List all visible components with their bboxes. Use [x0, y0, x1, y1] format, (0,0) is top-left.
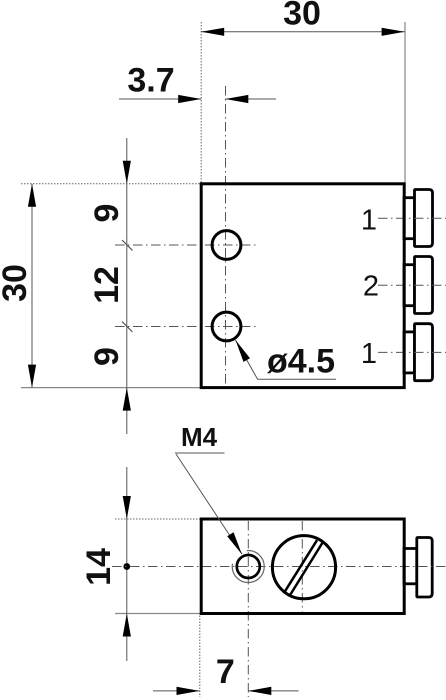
dimension line 3.7 left tail	[119, 98, 201, 100]
arrow 9/12/9 bottom (pointing up)	[123, 388, 131, 411]
leader arrow o4.5 (pointing up-left at hole)	[236, 340, 251, 362]
arrow 7 left (pointing right)	[177, 687, 200, 695]
hole lower	[212, 312, 241, 341]
svg-text:12: 12	[88, 266, 126, 304]
tick at hole1 level	[122, 240, 133, 251]
svg-text:2: 2	[363, 271, 379, 303]
M4 hole inner circle	[237, 555, 260, 578]
extension line 7 left (body edge extended)	[199, 616, 201, 698]
svg-text:M4: M4	[181, 422, 218, 452]
body fill (top view)	[201, 184, 404, 388]
leader line M4	[176, 454, 242, 554]
svg-text:7: 7	[216, 653, 235, 691]
svg-text:1: 1	[361, 338, 377, 370]
center line hole2 horizontal	[115, 326, 256, 328]
dot on 14 dim line	[123, 563, 130, 570]
dimension line 14 vertical	[126, 467, 128, 661]
pin2 tab	[404, 265, 415, 306]
leader arrow M4 (pointing down-right)	[227, 532, 242, 554]
pin3 cap	[415, 324, 433, 381]
arrow 9/12/9 top (pointing down)	[123, 161, 131, 184]
arrow 14 bottom (pointing up)	[123, 614, 131, 637]
pin1 cap	[415, 190, 433, 247]
dimension line 30 (top)	[201, 31, 404, 33]
arrow 7 right (pointing left)	[248, 687, 271, 695]
screw slot line 1	[284, 540, 317, 593]
body outline (bottom view)	[201, 519, 404, 614]
pin2 center line	[378, 284, 446, 286]
M4 thread outer arc	[232, 551, 264, 583]
center line hole1 horizontal	[115, 244, 256, 246]
extension line body2 bottom	[115, 613, 200, 615]
arrow 30-top left	[201, 28, 224, 36]
svg-text:30: 30	[283, 0, 321, 33]
svg-text:ø4.5: ø4.5	[267, 343, 335, 381]
body fill (bottom view)	[201, 519, 404, 614]
screw head circle	[272, 536, 335, 599]
arrow left-30 top (pointing up)	[28, 184, 36, 207]
center line vertical screw axis	[301, 521, 303, 612]
arrow 3.7 left (pointing right)	[178, 95, 201, 103]
hole upper	[212, 231, 241, 260]
pin1 center line	[378, 217, 446, 219]
pin (bottom view) cap	[417, 538, 432, 598]
center line vertical (hole axis x=225.5)	[225, 86, 227, 389]
dimension line 3.7 right tail	[225, 98, 276, 100]
extension line body bottom (y=387)	[21, 387, 200, 389]
svg-text:3.7: 3.7	[127, 62, 174, 100]
center line horizontal (bottom view)	[112, 566, 446, 568]
dimension line 9/12/9 vertical	[126, 138, 128, 434]
pin3 center line	[378, 351, 446, 353]
pin1 tab	[404, 198, 415, 239]
svg-text:1: 1	[361, 205, 377, 237]
dimension line 30 (left vertical)	[31, 184, 33, 388]
leader line o4.5	[236, 340, 337, 379]
screw slot line 2	[290, 543, 322, 595]
body outline (top view)	[201, 184, 404, 388]
svg-text:9: 9	[88, 347, 126, 366]
svg-text:30: 30	[0, 264, 34, 302]
pin3 tab	[404, 332, 415, 373]
arrow 14 top (pointing down)	[123, 496, 131, 519]
center line vertical M4 axis	[247, 521, 249, 697]
extension line left edge (top view, x=201)	[200, 22, 202, 183]
dimension line 7 left tail	[153, 690, 200, 692]
pin (bottom view) tab	[404, 549, 417, 584]
extension line right edge (top view, x=405)	[404, 22, 406, 183]
extension line body2 top	[115, 518, 200, 520]
arrow 3.7 right (pointing left)	[225, 95, 248, 103]
leader underline M4	[175, 452, 225, 454]
dimension line 7 right tail	[248, 690, 298, 692]
svg-text:9: 9	[88, 204, 126, 223]
arrow 30-top right	[382, 28, 405, 36]
pin2 cap	[415, 257, 433, 314]
extension line body top (y=184.5)	[21, 183, 200, 185]
arrow left-30 bottom (pointing down)	[28, 365, 36, 388]
tick at hole2 level	[122, 322, 133, 333]
